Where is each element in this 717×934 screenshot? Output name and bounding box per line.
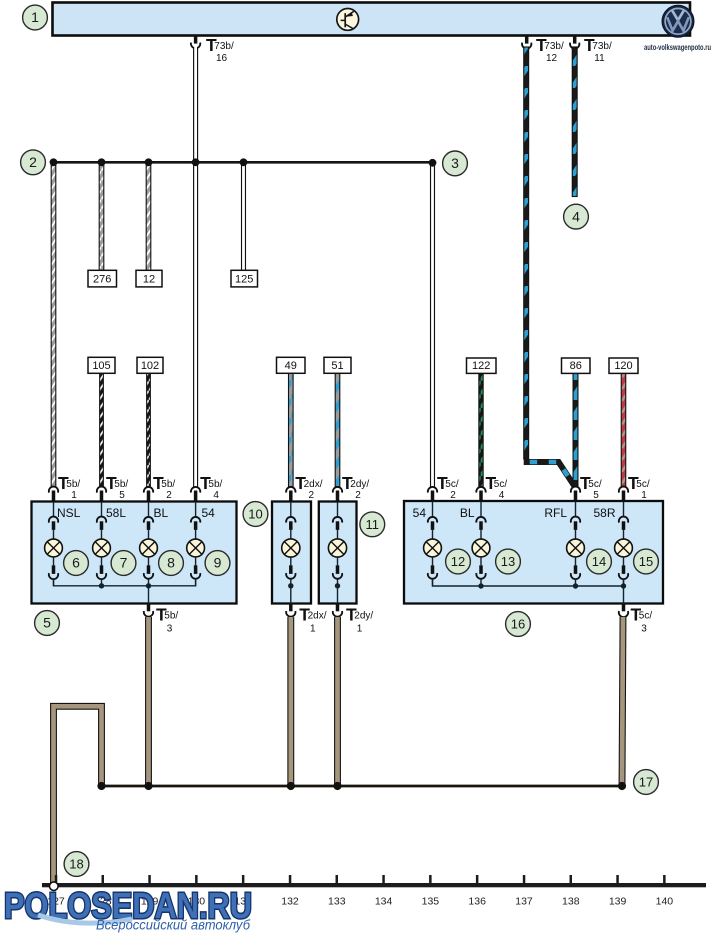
svg-text:5: 5 [43, 615, 51, 631]
lamp contact below X right [333, 556, 342, 603]
wire blue/black box86 to pin T5c/5 [573, 373, 578, 486]
lamp contact below 58R [619, 556, 628, 586]
connection 51 [324, 357, 351, 373]
track ticks [55, 875, 666, 883]
callout 18 [64, 852, 89, 877]
svg-text:3: 3 [641, 624, 647, 635]
lamp contact below X left [286, 556, 295, 603]
svg-text:73b/: 73b/ [592, 41, 612, 52]
svg-text:2: 2 [29, 154, 37, 170]
connector T73b/11 [570, 35, 612, 64]
connection 86 [562, 358, 591, 373]
bulb RFL [567, 539, 585, 557]
callout 13 [496, 549, 521, 574]
svg-text:11: 11 [594, 53, 605, 64]
svg-text:138: 138 [562, 896, 580, 908]
svg-text:2dx/: 2dx/ [304, 479, 323, 490]
wire brown T2dx/1 down [287, 617, 294, 786]
svg-text:3: 3 [451, 155, 459, 171]
svg-text:12: 12 [451, 554, 465, 569]
svg-text:51: 51 [331, 360, 343, 372]
lamp holder X right [333, 502, 342, 540]
lamp holder 58R [619, 502, 628, 540]
wire brown T5b/3 down [145, 617, 152, 786]
svg-text:5c/: 5c/ [639, 611, 653, 622]
svg-text:134: 134 [375, 896, 393, 908]
svg-text:12: 12 [143, 274, 155, 286]
svg-text:5c/: 5c/ [636, 479, 650, 490]
connection 125 [231, 270, 258, 287]
wire white T73b/16 to pin 54 [193, 47, 198, 487]
callout 9 [205, 551, 230, 576]
connector T2dy/2 [333, 473, 370, 502]
svg-text:1: 1 [71, 490, 77, 501]
svg-text:2: 2 [309, 490, 315, 501]
lamp contact below RFL [571, 556, 580, 586]
lamp holder 54R [428, 502, 437, 540]
svg-text:1: 1 [310, 624, 316, 635]
callout 7 [111, 551, 136, 576]
callout 11 [360, 512, 385, 537]
bulb BL [140, 539, 158, 557]
connector T5c/3 [619, 604, 653, 635]
svg-text:5b/: 5b/ [208, 479, 222, 490]
svg-text:10: 10 [248, 507, 262, 522]
internal bus box16 [433, 580, 627, 604]
connector T2dy/1 [333, 604, 374, 635]
watermark auto-volkswagenpoto.ru [644, 43, 711, 52]
svg-text:136: 136 [468, 896, 486, 908]
wire grey/white node2 to box 276 [99, 162, 104, 270]
tail lamp unit box 16 [404, 501, 663, 604]
svg-text:7: 7 [120, 555, 128, 571]
bulb 54 [187, 539, 205, 557]
bulb 58R [615, 539, 633, 557]
svg-text:139: 139 [609, 896, 627, 908]
connection 49 [277, 357, 306, 373]
callout 10 [243, 502, 268, 527]
ground bus wire [102, 785, 623, 788]
wire black/white box105 to pin 58L [100, 373, 104, 486]
callout 12 [446, 549, 471, 574]
callout 3 [443, 151, 468, 176]
svg-text:BL: BL [460, 506, 475, 520]
lamp holder BLR [476, 502, 485, 540]
license plate lamp box 11 [319, 502, 357, 604]
svg-text:2: 2 [450, 490, 456, 501]
svg-text:14: 14 [592, 554, 606, 569]
callout 2 [21, 150, 46, 175]
connector T73b/12 [522, 35, 564, 64]
svg-text:49: 49 [285, 360, 297, 372]
wire grey/white node2 to pin NSL [51, 162, 56, 486]
wire grey/blue box49 to pin T2dx/2 [289, 373, 294, 486]
svg-text:5: 5 [119, 490, 125, 501]
VW logo [662, 5, 694, 37]
svg-text:4: 4 [499, 490, 505, 501]
lamp contact below BLR [476, 556, 485, 586]
svg-text:18: 18 [69, 857, 83, 872]
connection 12 [136, 270, 162, 287]
svg-text:2dy/: 2dy/ [350, 479, 369, 490]
bulb X right [328, 539, 346, 557]
svg-text:125: 125 [235, 274, 253, 286]
bulb BLR [472, 539, 490, 557]
connector T5c/5 [571, 473, 602, 502]
wire brown to ground 127 [54, 706, 102, 884]
callout 6 [64, 551, 89, 576]
lamp contact below 58L [97, 556, 106, 586]
watermark POLOSEDAN.RU [4, 885, 252, 933]
lamp contact below NSL [49, 556, 58, 586]
wire red/grey box120 to pin T5c/1 [621, 373, 626, 486]
wire brown T5c/3 down [622, 617, 623, 786]
svg-text:58L: 58L [106, 506, 126, 520]
svg-text:86: 86 [570, 360, 582, 372]
connector T5c/1 [619, 473, 650, 502]
license plate lamp box 10 [272, 502, 311, 604]
svg-text:17: 17 [639, 775, 653, 790]
svg-text:5b/: 5b/ [66, 479, 80, 490]
svg-text:140: 140 [656, 896, 674, 908]
svg-text:5c/: 5c/ [588, 479, 602, 490]
junction dots ground bus [97, 782, 626, 790]
control unit symbol J519 [337, 9, 359, 31]
svg-text:105: 105 [92, 360, 110, 372]
svg-text:102: 102 [141, 360, 159, 372]
connector T5c/2 [428, 473, 459, 502]
node junction dots on bus [50, 158, 437, 166]
svg-text:2dy/: 2dy/ [354, 611, 373, 622]
svg-text:11: 11 [366, 517, 380, 532]
svg-text:3: 3 [167, 624, 173, 635]
wire black/white box102 to pin BL [147, 373, 151, 486]
svg-text:5b/: 5b/ [161, 479, 175, 490]
connector T5b/5 [97, 473, 129, 502]
svg-text:5b/: 5b/ [164, 611, 178, 622]
svg-text:54: 54 [413, 506, 427, 520]
svg-text:73b/: 73b/ [214, 41, 234, 52]
bulb NSL [45, 539, 63, 557]
svg-text:5c/: 5c/ [445, 479, 459, 490]
svg-text:1: 1 [357, 624, 363, 635]
svg-text:16: 16 [511, 617, 525, 632]
svg-text:2: 2 [355, 490, 361, 501]
bulb 58L [93, 539, 111, 557]
lamp contact below 54 [191, 556, 200, 586]
connection 276 [88, 270, 117, 287]
wire white node2 to box 125 [241, 162, 246, 270]
lamp holder 54 [191, 502, 200, 540]
connection 105 [88, 357, 115, 373]
svg-text:auto-volkswagenpoto.ru: auto-volkswagenpoto.ru [644, 43, 711, 52]
track numbers 127-140 [47, 896, 673, 908]
svg-text:54: 54 [202, 506, 216, 520]
connection 122 [467, 358, 497, 373]
svg-text:2: 2 [166, 490, 172, 501]
svg-text:13: 13 [501, 554, 515, 569]
svg-text:16: 16 [216, 53, 228, 64]
svg-text:6: 6 [72, 555, 80, 571]
svg-text:5b/: 5b/ [114, 479, 128, 490]
connector T5b/2 [144, 473, 176, 502]
svg-text:4: 4 [572, 208, 580, 224]
callout 14 [587, 549, 612, 574]
connector T5b/4 [191, 473, 223, 502]
wire grey/white node2 to box 12 [146, 162, 151, 270]
svg-text:BL: BL [154, 506, 169, 520]
lamp contact below BL [144, 556, 153, 586]
wire bus node2-node3 [54, 161, 434, 164]
svg-text:73b/: 73b/ [544, 41, 564, 52]
svg-text:Всероссийский автоклуб: Всероссийский автоклуб [96, 918, 250, 933]
callout 15 [634, 549, 659, 574]
connection 102 [137, 357, 163, 373]
wire black/blue T73b/11 stub [572, 47, 577, 197]
pin labels 54 BL RFL 58R [413, 506, 616, 520]
lamp holder RFL [571, 502, 580, 540]
svg-text:1: 1 [31, 9, 39, 25]
svg-text:9: 9 [214, 555, 222, 571]
ground point circle [50, 882, 59, 891]
lamp holder X left [286, 502, 295, 540]
wire grey/blue box51 to pin T2dy/2 [335, 373, 340, 486]
svg-text:5: 5 [593, 490, 599, 501]
internal bus box5 [54, 580, 196, 604]
connector T5b/3 [144, 604, 179, 635]
svg-text:122: 122 [472, 360, 490, 372]
connector T2dx/2 [286, 473, 323, 502]
callout 1 [23, 5, 48, 30]
connection 120 [609, 358, 638, 373]
connector T73b/16 [191, 35, 234, 64]
callout 17 [634, 770, 659, 795]
svg-text:4: 4 [213, 490, 219, 501]
callout 4 [564, 204, 589, 229]
callout 8 [159, 551, 184, 576]
wire brown T2dy/1 down [334, 617, 341, 786]
lamp holder BL [144, 502, 153, 540]
bulb 54R [424, 539, 442, 557]
svg-text:5c/: 5c/ [494, 479, 508, 490]
pin labels NSL 58L BL 54 [57, 506, 215, 520]
lamp holder NSL [49, 502, 58, 540]
tail lamp unit box 5 [32, 502, 237, 604]
svg-text:15: 15 [639, 554, 653, 569]
svg-text:2dx/: 2dx/ [308, 611, 327, 622]
svg-text:12: 12 [546, 53, 558, 64]
svg-text:276: 276 [93, 274, 111, 286]
current track rail [42, 883, 706, 887]
callout 5 [35, 611, 60, 636]
bulb X left [282, 539, 300, 557]
lamp holder 58L [97, 502, 106, 540]
callout 16 [506, 612, 531, 637]
svg-text:120: 120 [614, 360, 632, 372]
lamp contact below 54R [428, 556, 437, 586]
svg-text:RFL: RFL [544, 506, 567, 520]
wire black/blue T73b/12 to pin T5c/5 (jogged) [524, 47, 575, 487]
wire black/green box122 to pin T5c/4 [479, 373, 483, 486]
svg-text:NSL: NSL [57, 506, 81, 520]
connector T2dx/1 [286, 604, 327, 635]
connector T5c/4 [476, 473, 507, 502]
svg-text:137: 137 [515, 896, 533, 908]
svg-text:133: 133 [328, 896, 346, 908]
wire white node3 to pin T5c/2 [430, 163, 435, 487]
svg-text:58R: 58R [593, 506, 615, 520]
svg-text:1: 1 [641, 490, 647, 501]
svg-text:132: 132 [281, 896, 299, 908]
connector T5b/1 [49, 473, 81, 502]
svg-text:135: 135 [422, 896, 440, 908]
svg-text:8: 8 [167, 555, 175, 571]
fuse/relay panel bar 1 [53, 3, 691, 36]
